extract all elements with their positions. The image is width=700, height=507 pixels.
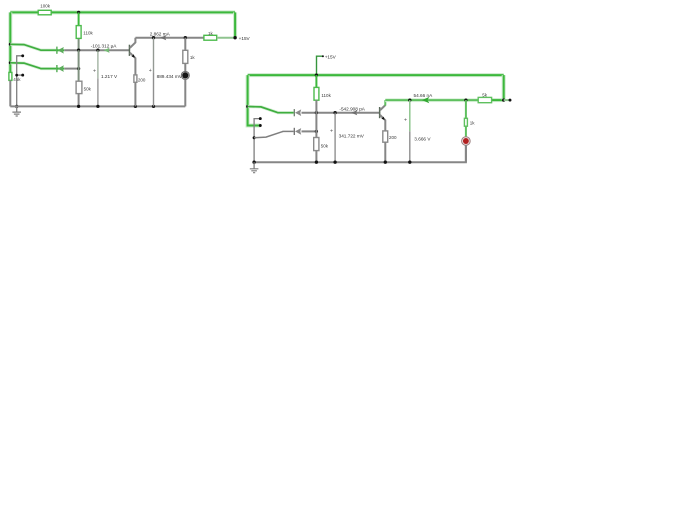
wire bottom rail right	[254, 145, 466, 162]
node junction 50k bottom right	[315, 161, 318, 164]
wire collector row right	[385, 98, 478, 102]
resistor R7 1k horizontal	[204, 35, 217, 40]
node junction row2/center	[315, 130, 318, 133]
node junction row2	[77, 67, 80, 70]
node junction M3 bottom	[333, 161, 336, 164]
resistor R3 50k	[76, 81, 82, 93]
diode D4	[293, 128, 295, 135]
node junction ground	[15, 105, 18, 108]
node junction M4 bottom	[408, 161, 411, 164]
node junction 50k bottom	[77, 105, 80, 108]
wire S3 to D3	[278, 111, 294, 114]
resistor R11 5k	[478, 97, 491, 102]
node junction rail drop	[502, 98, 505, 101]
svg-text:-101.312 µA: -101.312 µA	[91, 44, 118, 49]
post S2 throw	[21, 74, 24, 77]
svg-text:110k: 110k	[83, 30, 93, 35]
voltmeter M3 341.722 mV	[334, 113, 336, 163]
resistor R6 1k vertical	[184, 38, 186, 51]
wire gray post line right	[254, 119, 260, 163]
node junction stub	[15, 74, 18, 77]
svg-text:100k: 100k	[40, 4, 51, 9]
wire D1 to Q1 base	[64, 49, 129, 51]
ammeter A2 arrow 2.862 mA	[160, 35, 166, 40]
wire top rail left circuit	[10, 10, 235, 14]
svg-text:110k: 110k	[321, 93, 331, 98]
ammeter A1 arrow -101.312 uA	[104, 48, 110, 53]
svg-text:889.434 mV: 889.434 mV	[157, 74, 183, 79]
diode D3	[293, 109, 295, 116]
voltmeter M2 889.434 mV	[153, 38, 155, 72]
svg-text:+: +	[330, 128, 333, 134]
ammeter A3 arrow -542.908 pA	[351, 110, 357, 115]
node junction rail/ground right	[252, 161, 255, 164]
node junction 200 bottom	[134, 105, 137, 108]
wire D2 to node	[64, 68, 78, 70]
wire S2 to D2	[41, 67, 57, 70]
svg-text:2.862 mA: 2.862 mA	[150, 31, 171, 36]
node junction M4 top	[408, 98, 411, 101]
resistor R1 100k	[38, 10, 51, 15]
wire right vertical to +15V	[233, 12, 237, 37]
wire center vertical right	[315, 100, 317, 137]
ground right	[253, 162, 255, 168]
wire D3 to Q2 base	[302, 112, 380, 114]
node junction 110k/top rail	[77, 11, 80, 14]
post S4 green throw	[259, 124, 262, 127]
node junction M1 bottom	[96, 105, 99, 108]
diode D2	[56, 65, 58, 72]
node junction M2 bottom	[152, 105, 155, 108]
svg-text:-542.908 pA: -542.908 pA	[339, 107, 365, 112]
transistor Q2	[379, 107, 381, 118]
svg-text:50k: 50k	[321, 143, 329, 148]
resistor R4 45k	[9, 72, 12, 80]
svg-text:5k: 5k	[482, 93, 488, 98]
node junction meter M1 tap	[96, 49, 99, 52]
post wire end	[509, 99, 512, 102]
switch S3 lever	[246, 105, 249, 108]
wire gray post line	[17, 56, 23, 107]
node junction 200 bottom right	[384, 161, 387, 164]
svg-text:50k: 50k	[84, 86, 92, 91]
resistor R5 200	[134, 75, 137, 82]
ground	[16, 106, 18, 112]
wire right vertical rail drop	[502, 75, 506, 100]
node junction rail/110k	[315, 73, 318, 76]
wire post stub 2	[17, 74, 23, 76]
svg-text:1k: 1k	[470, 120, 476, 125]
switch S2 lever	[9, 61, 12, 64]
RIGHT CIRCUIT	[246, 54, 511, 172]
svg-text:+: +	[404, 118, 407, 124]
node +15V right	[322, 55, 324, 57]
node +15V left	[233, 36, 236, 39]
switch S4 lever gray	[253, 136, 256, 139]
post S3 throw	[259, 117, 262, 120]
transistor Q1	[129, 45, 131, 56]
wire collector row	[135, 37, 204, 39]
wire left vertical	[8, 12, 12, 72]
svg-text:1k: 1k	[190, 55, 196, 60]
node junction LED branch top	[184, 36, 187, 39]
LED LED2 on red	[462, 137, 471, 146]
wire S4 to D4	[283, 130, 294, 132]
node junction LED branch right	[464, 98, 467, 101]
LEFT CIRCUIT	[9, 4, 251, 116]
svg-text:+15V: +15V	[239, 36, 251, 41]
svg-text:+: +	[149, 68, 152, 74]
wire 45k to bottom rail	[9, 80, 11, 106]
voltmeter M4 3.666 V	[409, 100, 411, 131]
wire D4 to node	[302, 130, 317, 132]
wire S1 to D1	[41, 49, 57, 52]
wire +15V stub	[317, 56, 323, 75]
wire left vertical right circuit	[248, 75, 261, 125]
voltmeter M1 1.217 V	[97, 50, 99, 78]
svg-text:200: 200	[138, 77, 146, 82]
svg-text:3.666 V: 3.666 V	[414, 137, 431, 142]
svg-text:1.217 V: 1.217 V	[101, 74, 118, 79]
node junction M2 top	[152, 36, 155, 39]
ammeter A4 arrow 54.66 nA	[422, 97, 429, 103]
node junction row1/center	[315, 111, 318, 114]
svg-text:+15V: +15V	[325, 54, 337, 59]
wire center vertical node to 50k	[78, 50, 80, 81]
svg-text:200: 200	[389, 135, 397, 140]
wire top rail right circuit	[248, 73, 504, 77]
wire stub to post	[504, 99, 510, 101]
post S1 throw	[21, 54, 24, 57]
svg-text:+: +	[93, 68, 96, 74]
LED LED1 off	[181, 71, 189, 79]
node junction base node row1	[77, 49, 80, 52]
diode D1	[56, 47, 58, 54]
svg-text:1k: 1k	[208, 31, 214, 36]
svg-text:54.66 nA: 54.66 nA	[414, 93, 434, 98]
resistor R8 110k right	[315, 75, 317, 87]
svg-text:341.722 mV: 341.722 mV	[339, 134, 365, 139]
resistor R9 50k right	[314, 138, 319, 151]
switch S1 lever	[9, 43, 12, 46]
wire bottom rail	[10, 105, 185, 107]
resistor R10 200 right	[383, 131, 388, 142]
resistor R2 110k	[78, 12, 80, 25]
node junction M3 tap	[333, 111, 336, 114]
resistor R12 1k right	[465, 100, 467, 118]
